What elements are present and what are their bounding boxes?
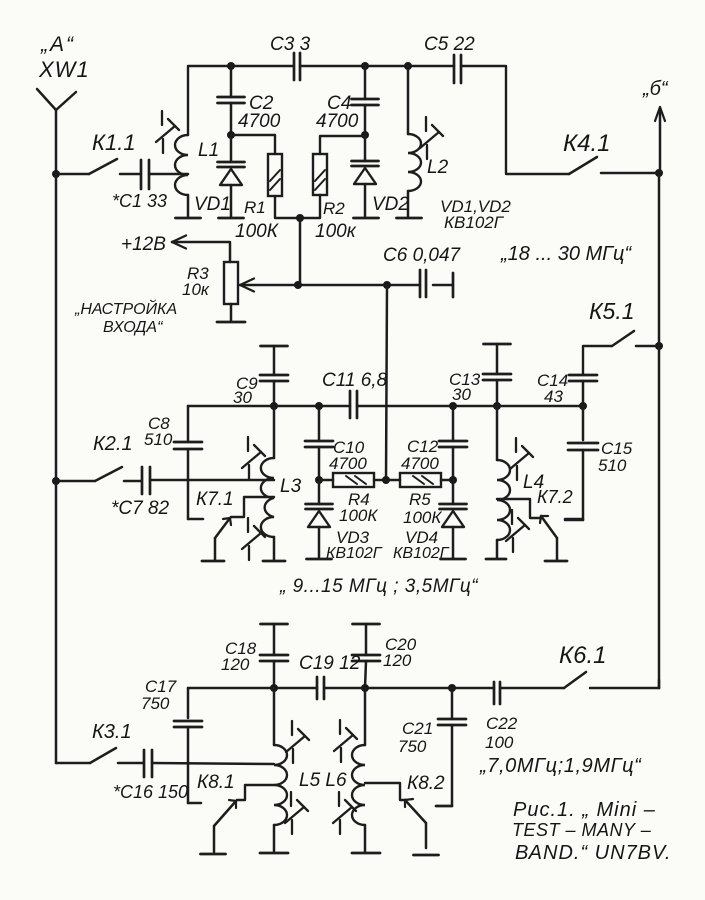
- node: tune line R1R2 junction: [294, 281, 302, 289]
- capacitor C7 value label *C7 82: [111, 498, 170, 519]
- switch K8.1: [214, 800, 236, 852]
- ground: VD3 bottom bar: [307, 558, 332, 561]
- potentiometer R3 value 10k: [182, 280, 210, 299]
- resistor R4: [319, 473, 386, 487]
- switch K1.1 label: [92, 130, 136, 155]
- wire: middle rail right segment: [357, 405, 583, 408]
- node: rail C13/L4 junction: [493, 402, 501, 410]
- wire: middle rail left segment: [188, 405, 350, 408]
- capacitor C11: [350, 391, 357, 418]
- capacitor C21: [436, 688, 466, 806]
- capacitor C12 label: [407, 437, 439, 456]
- wire: top rail left segment: [188, 66, 294, 135]
- capacitor C21 value 750: [398, 737, 427, 756]
- svg-text:К2.1: К2.1: [93, 433, 133, 455]
- ground: VD2 bottom bar: [354, 217, 379, 220]
- capacitor C17 label: [145, 677, 177, 696]
- node: rail C20/L6 junction: [361, 684, 369, 692]
- node: tune line C6 junction: [383, 281, 391, 289]
- capacitor C1 value label *C1 33: [112, 191, 167, 211]
- inductor L5: [274, 688, 287, 825]
- trimmer arrow of L6 lower: [333, 792, 356, 834]
- varicap type label VD1,VD2: [440, 197, 511, 216]
- svg-text:30: 30: [233, 388, 252, 407]
- capacitor C8 label: [148, 414, 170, 433]
- wire R1 bottom to node: [275, 196, 300, 218]
- svg-text:КВ102Г: КВ102Г: [326, 545, 383, 562]
- resistor R2 value 100K: [315, 221, 357, 242]
- capacitor C15 value 510: [598, 456, 627, 475]
- tuning caption line1: [74, 299, 177, 318]
- inductor L4 label: [523, 472, 544, 493]
- capacitor C10 value 4700: [329, 454, 367, 473]
- switch K6.1: [500, 672, 659, 688]
- capacitor C13 value 30: [452, 385, 471, 404]
- svg-text:КВ102Г: КВ102Г: [444, 213, 505, 232]
- terminal bar of C13: [484, 343, 511, 346]
- node: rail C21 junction: [448, 684, 456, 692]
- node: VD1 top junction: [227, 131, 235, 139]
- svg-text:100К: 100К: [403, 508, 442, 527]
- switch K7.2 label: [537, 487, 573, 507]
- svg-text:4700: 4700: [238, 111, 281, 132]
- ground: L6 bottom bar: [352, 852, 380, 855]
- capacitor C18 value 120: [221, 655, 250, 674]
- ground: K7.2 bottom bar: [545, 560, 567, 563]
- resistor R1: [268, 154, 282, 196]
- wire: top rail right segment to K4.1: [461, 66, 569, 174]
- terminal bar of C9: [261, 345, 288, 348]
- svg-text:750: 750: [398, 737, 427, 756]
- capacitor C21 label: [402, 719, 433, 738]
- svg-text:К6.1: К6.1: [559, 642, 607, 669]
- figure caption line 1: [513, 799, 656, 821]
- power +12V label: [121, 234, 166, 255]
- ground: K8.1 bottom bar: [201, 853, 226, 856]
- node: rail C14/C15 junction: [579, 402, 587, 410]
- band label 9...15 MHz 3,5 MHz: [279, 576, 479, 597]
- svg-text:4700: 4700: [401, 454, 439, 473]
- output b arrow: [655, 107, 665, 173]
- capacitor C22 value 100: [485, 733, 514, 752]
- capacitor C1: [141, 160, 149, 189]
- svg-text:510: 510: [144, 430, 173, 449]
- svg-text:4700: 4700: [316, 111, 359, 132]
- wire L5 bottom: [273, 825, 276, 852]
- switch K8.2 label: [407, 773, 445, 794]
- resistor R1 value 100K: [235, 221, 280, 242]
- ground: VD4 bottom bar: [441, 558, 466, 561]
- svg-text:К8.1: К8.1: [197, 772, 235, 793]
- potentiometer R3 label: [187, 264, 209, 283]
- node: C4 top rail junction: [361, 62, 369, 70]
- svg-text:С21: С21: [402, 719, 433, 738]
- band label 18...30 MHz: [500, 243, 632, 265]
- node: output bus K4.1 junction: [655, 169, 663, 177]
- capacitor C19 label C19 12: [299, 653, 361, 674]
- svg-text:L5 L6: L5 L6: [299, 770, 347, 791]
- terminal bar of C6: [452, 273, 455, 297]
- varicap VD1 label: [194, 194, 231, 215]
- varicap type label KV102G: [444, 213, 505, 232]
- capacitor C7: [142, 467, 150, 494]
- switch K7.1: [215, 518, 231, 560]
- capacitor C5 label C5 22: [424, 34, 475, 55]
- varicap VD3 label: [336, 528, 370, 547]
- ground: K8.2 bottom bar: [414, 854, 439, 857]
- capacitor C20 label: [385, 635, 417, 654]
- wire: right bus upper: [658, 173, 661, 346]
- node: VD2 top junction: [361, 131, 369, 139]
- switch K2.1 label: [93, 433, 133, 455]
- svg-text:С11 6,8: С11 6,8: [322, 370, 388, 391]
- tuning caption line2: [103, 319, 164, 336]
- capacitor C2: [218, 66, 245, 135]
- node: rail C10 junction: [315, 402, 323, 410]
- svg-text:ВХОДА“: ВХОДА“: [103, 319, 164, 336]
- antenna XW1: [37, 89, 76, 174]
- node: rail C18/L5 junction: [270, 684, 278, 692]
- inductor L2 label: [427, 157, 449, 178]
- figure caption line 2: [512, 820, 652, 840]
- wire C7 to L3 tap: [150, 479, 274, 482]
- svg-text:К7.2: К7.2: [537, 487, 573, 507]
- capacitor C13: [483, 344, 511, 406]
- wire L4 bottom: [496, 540, 499, 558]
- resistor R5 value 100K: [403, 508, 442, 527]
- trimmer arrow of L6 upper: [334, 720, 357, 762]
- svg-text:+12В: +12В: [121, 234, 166, 255]
- capacitor C18: [260, 624, 288, 688]
- wire junction down to tune line: [299, 218, 302, 285]
- wire: bottom rail right segment: [324, 687, 494, 690]
- switch K1.1: [56, 159, 140, 174]
- switch K5.1: [612, 331, 659, 346]
- wire L5 tap to K8.1: [237, 785, 274, 800]
- svg-text:L3: L3: [280, 476, 302, 497]
- svg-text:К1.1: К1.1: [92, 130, 136, 155]
- inductor L1: [175, 135, 188, 195]
- node b label: [642, 78, 669, 100]
- trimmer arrow of L5 upper: [286, 721, 309, 763]
- capacitor C13 label: [449, 370, 481, 389]
- capacitor C4 value 4700: [316, 111, 359, 132]
- wire L4 tap to K7.2: [497, 499, 542, 518]
- capacitor C2 value 4700: [238, 111, 281, 132]
- varicap VD4 type KV102G: [393, 545, 450, 562]
- node A label: [40, 33, 75, 56]
- ground: L5 bottom bar: [260, 852, 288, 855]
- wire L3 tap to K7.1: [231, 497, 274, 517]
- capacitor C11 label C11 6,8: [322, 370, 388, 391]
- varicap VD2 label: [372, 194, 409, 215]
- wire: bottom rail left segment: [188, 687, 317, 690]
- resistor R5: [386, 473, 453, 487]
- node: C10/R4/VD3 junction: [315, 476, 323, 484]
- wire VD1 node to R1: [231, 135, 275, 154]
- capacitor C4: [352, 66, 379, 135]
- wire L1 bottom: [187, 195, 190, 217]
- switch K3.1: [56, 748, 143, 763]
- wire C1 to L1 tap: [149, 173, 188, 176]
- capacitor C22 label: [486, 714, 518, 733]
- wire C17 to K8.1 contact: [188, 802, 201, 805]
- switch K7.2: [540, 516, 557, 560]
- svg-text:750: 750: [141, 694, 170, 713]
- switch K6.1 label: [559, 642, 607, 669]
- svg-text:С5 22: С5 22: [424, 34, 475, 55]
- inductor L6: [352, 688, 365, 825]
- wire: center tune column down: [386, 285, 387, 480]
- varicap VD4: [440, 480, 467, 558]
- wire R3 bottom: [230, 304, 233, 321]
- svg-text:*С7 82: *С7 82: [111, 498, 170, 519]
- capacitor C14: [569, 346, 612, 406]
- svg-text:К5.1: К5.1: [589, 298, 635, 324]
- capacitor C2 label: [249, 93, 274, 114]
- capacitor C12 value 4700: [401, 454, 439, 473]
- capacitor C14 label: [537, 371, 568, 390]
- terminal bar of C18: [261, 623, 288, 626]
- capacitor C15: [565, 406, 598, 520]
- wire L2 top: [407, 66, 410, 134]
- capacitor C20 value 120: [383, 651, 412, 670]
- capacitor C4 label: [327, 93, 351, 114]
- resistor R4 value 100K: [339, 506, 378, 525]
- svg-text:К3.1: К3.1: [92, 721, 132, 743]
- capacitor C17 branch from rail: [174, 688, 202, 803]
- node: rail C12 junction: [449, 402, 457, 410]
- svg-text:С3 3: С3 3: [270, 34, 311, 55]
- wire: right bus lower: [658, 346, 661, 688]
- svg-text:КВ102Г: КВ102Г: [393, 545, 450, 562]
- svg-text:*С1 33: *С1 33: [112, 191, 167, 211]
- switch K8.2: [405, 799, 426, 848]
- ground: L1 bottom bar: [176, 217, 201, 220]
- svg-text:К8.2: К8.2: [407, 773, 445, 794]
- svg-text:„18 ... 30 МГц“: „18 ... 30 МГц“: [500, 243, 632, 265]
- antenna XW1 label: [38, 57, 90, 82]
- svg-text:„ 9...15 МГц ; 3,5МГц“: „ 9...15 МГц ; 3,5МГц“: [279, 576, 479, 597]
- wire +12V feed with arrow: [172, 236, 230, 263]
- ground: R3 bottom bar: [217, 321, 245, 324]
- capacitor C16 value label *C16 150: [113, 782, 188, 802]
- svg-text:*С16 150: *С16 150: [113, 782, 188, 802]
- capacitor C5: [454, 55, 461, 83]
- varicap VD1: [218, 135, 245, 217]
- wire L6 tap to K8.2: [365, 783, 406, 800]
- switch K4.1 label: [563, 130, 611, 157]
- inductor L3 label: [280, 476, 302, 497]
- svg-text:L2: L2: [427, 157, 449, 178]
- inductor L2: [408, 134, 421, 191]
- capacitor C18 label: [225, 639, 257, 658]
- wire R2 bottom to node: [300, 195, 320, 218]
- trimmer arrow of L1: [156, 111, 179, 153]
- resistor R4 label: [348, 490, 370, 509]
- node: R4/R5 tune junction: [382, 476, 390, 484]
- ground: L2 bottom bar: [397, 217, 422, 220]
- svg-text:С22: С22: [486, 714, 518, 733]
- capacitor C3: [294, 53, 300, 80]
- svg-text:ВАND.“ UN7BV.: ВАND.“ UN7BV.: [515, 842, 671, 864]
- ground: L3 bottom bar: [263, 560, 285, 563]
- ground: VD1 bottom bar: [219, 217, 244, 220]
- svg-text:К4.1: К4.1: [563, 130, 611, 157]
- switch K5.1 label: [589, 298, 635, 324]
- wire K7.2 fixed contact: [565, 518, 583, 521]
- switch K7.1 label: [196, 489, 234, 510]
- node: rail C9/L3 junction: [270, 402, 278, 410]
- wire K8.2 fixed contact: [436, 805, 452, 808]
- wire: right bus bottom corner: [658, 680, 661, 688]
- wire L3 bottom: [273, 537, 276, 560]
- varicap VD4 label: [405, 528, 438, 547]
- wire left bus upper: [55, 174, 58, 481]
- capacitor C20: [352, 624, 380, 688]
- capacitor C22: [494, 682, 500, 704]
- svg-text:4700: 4700: [329, 454, 367, 473]
- capacitor C17 value 750: [141, 694, 170, 713]
- capacitor C6: [420, 270, 426, 297]
- ground: K7.1 bottom bar: [202, 560, 224, 563]
- svg-text:100К: 100К: [235, 221, 280, 242]
- R3 wiper arrow and tune line: [240, 279, 420, 292]
- trimmer arrow of L2: [420, 117, 443, 159]
- resistor R5 label: [409, 490, 431, 509]
- inductor L3: [261, 406, 274, 537]
- trimmer arrow of L4 lower: [506, 510, 529, 552]
- terminal bar of C20: [353, 623, 380, 626]
- svg-text:10к: 10к: [182, 280, 210, 299]
- capacitor C15 label: [601, 439, 633, 458]
- svg-text:Рис.1. „ Mini –: Рис.1. „ Mini –: [513, 799, 656, 821]
- svg-text:VD1: VD1: [194, 194, 231, 215]
- figure caption line 3: [515, 842, 671, 864]
- node: right bus K5.1 junction: [655, 342, 663, 350]
- varicap VD2: [352, 135, 379, 217]
- trimmer arrow of L4 upper: [510, 438, 533, 480]
- capacitor C14 value 43: [544, 387, 563, 406]
- trimmer arrow of L3 lower: [242, 518, 265, 560]
- node: L2 top rail junction: [404, 62, 412, 70]
- wire L2 bottom: [407, 191, 410, 217]
- inductor L1 label: [198, 140, 219, 161]
- capacitor C8 branch from rail: [174, 406, 202, 519]
- svg-text:30: 30: [452, 385, 471, 404]
- switch K3.1 label: [92, 721, 132, 743]
- switch K4.1: [569, 157, 659, 174]
- wire L6 bottom: [364, 825, 367, 852]
- svg-text:100: 100: [485, 733, 514, 752]
- svg-text:С6 0,047: С6 0,047: [383, 245, 462, 266]
- svg-text:L1: L1: [198, 140, 219, 161]
- switch K2.1: [56, 467, 141, 481]
- capacitor C10: [305, 406, 333, 480]
- capacitor C10 label: [333, 438, 365, 457]
- capacitor C9 label: [236, 374, 258, 393]
- wire C6 right: [433, 284, 452, 287]
- wire left bus lower: [55, 481, 58, 763]
- wire: top rail middle segment: [300, 65, 454, 68]
- node: C2 top rail junction: [227, 62, 235, 70]
- svg-text:R5: R5: [409, 490, 431, 509]
- svg-text:100К: 100К: [339, 506, 378, 525]
- svg-text:100к: 100к: [315, 221, 357, 242]
- svg-text:TЕST – МАNY –: TЕST – МАNY –: [512, 820, 652, 840]
- svg-text:„НАСТРОЙКА: „НАСТРОЙКА: [74, 299, 177, 318]
- svg-text:120: 120: [383, 651, 412, 670]
- wire VD2 node to R2: [320, 136, 365, 154]
- trimmer arrow of L3 upper: [242, 437, 265, 479]
- svg-text:„А“: „А“: [40, 33, 75, 56]
- inductor L5 L6 label: [299, 770, 347, 791]
- capacitor C6 label C6 0,047: [383, 245, 462, 266]
- ground: L4 bottom bar: [486, 558, 506, 561]
- trimmer arrow of L5 lower: [285, 792, 308, 834]
- svg-text:XW1: XW1: [38, 57, 90, 82]
- svg-text:„7,0МГц;1,9МГц“: „7,0МГц;1,9МГц“: [479, 755, 642, 777]
- svg-text:R1: R1: [244, 198, 266, 217]
- capacitor C8 value 510: [144, 430, 173, 449]
- node: left bus K2.1 junction: [52, 477, 60, 485]
- varicap VD3 type KV102G: [326, 545, 383, 562]
- node: C12/R5/VD4 junction: [449, 476, 457, 484]
- svg-text:120: 120: [221, 655, 250, 674]
- varicap VD3: [306, 480, 333, 558]
- inductor L4: [497, 406, 510, 540]
- switch K8.1 label: [197, 772, 235, 793]
- resistor R2 label: [323, 199, 345, 218]
- svg-text:R2: R2: [323, 199, 345, 218]
- wire C8 to K7.1 contact: [188, 518, 203, 521]
- svg-text:„б“: „б“: [642, 78, 669, 100]
- band label 7,0 MHz 1,9 MHz: [479, 755, 642, 777]
- svg-text:К7.1: К7.1: [196, 489, 234, 510]
- capacitor C9 value 30: [233, 388, 252, 407]
- capacitor C16: [144, 750, 152, 777]
- capacitor C12: [439, 406, 467, 480]
- capacitor C19: [317, 677, 324, 699]
- node: antenna junction: [52, 170, 60, 178]
- capacitor C3 label C3 3: [270, 34, 311, 55]
- node: R1/R2 junction: [296, 214, 304, 222]
- capacitor C9: [260, 346, 288, 406]
- svg-text:VD2: VD2: [372, 194, 409, 215]
- svg-text:43: 43: [544, 387, 563, 406]
- svg-text:510: 510: [598, 456, 627, 475]
- resistor R1 label: [244, 198, 266, 217]
- wire C16 to L5 tap: [152, 763, 274, 764]
- resistor R2: [313, 154, 327, 195]
- potentiometer R3: [224, 262, 238, 304]
